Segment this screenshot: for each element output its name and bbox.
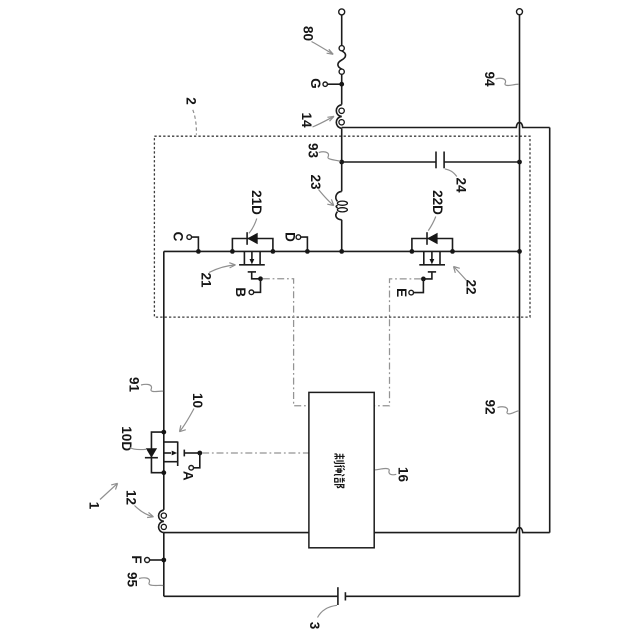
wire: battery 3 to wire 94 bottom corner — [345, 595, 519, 597]
kanji bu — [334, 478, 344, 488]
junction node 21 right — [271, 249, 276, 254]
junction node 21 left — [230, 249, 235, 254]
wire 94 vertical — [519, 15, 521, 597]
kanji gyo — [334, 465, 344, 476]
capacitor 24 — [436, 152, 444, 169]
diode 21D triangle — [247, 233, 258, 244]
junction node 10 bottom — [161, 470, 166, 475]
battery 3 — [338, 587, 346, 605]
terminal circle G — [323, 82, 327, 86]
svg-text:21: 21 — [199, 272, 214, 288]
transistor 22 (MOSFET) — [412, 232, 453, 281]
terminal B — [249, 279, 260, 295]
svg-text:21D: 21D — [249, 190, 264, 215]
wire: control unit to right boundary with hop over wire 94 — [374, 528, 550, 533]
terminal circle top left — [339, 9, 345, 15]
arrow leader from label 10 — [180, 409, 195, 432]
svg-text:22: 22 — [464, 279, 479, 294]
diode 10D cathode bar — [145, 457, 158, 459]
drain stub — [243, 251, 245, 264]
svg-text:24: 24 — [454, 177, 469, 193]
wire: inductor 12 to control unit (left segment) — [164, 532, 309, 534]
wire: capacitor 24 right plate to wire 94 — [444, 161, 519, 163]
control line from gate 21 to control unit — [263, 279, 309, 406]
wire: left bus from 12 down to corner — [163, 533, 165, 597]
main horizontal wire (node 91 bus) — [164, 250, 520, 252]
wire: top feed vertical into component 80 — [341, 15, 343, 46]
svg-text:3: 3 — [307, 622, 322, 630]
body arrow — [251, 251, 253, 259]
arrow leader from label 1 — [100, 483, 118, 499]
squiggle leader from label 93 — [319, 152, 341, 162]
arrow leader from label 12 — [135, 506, 154, 518]
squiggle leader from label 16 — [375, 468, 396, 474]
gate node — [421, 277, 426, 282]
svg-text:E: E — [394, 288, 409, 297]
drain stub — [423, 251, 425, 264]
channel bar — [239, 264, 265, 266]
svg-text:95: 95 — [125, 572, 140, 588]
gate lead — [252, 272, 261, 279]
svg-text:92: 92 — [483, 399, 498, 414]
body arrow — [164, 452, 171, 454]
svg-text:F: F — [129, 555, 144, 563]
junction node 93 — [339, 160, 344, 165]
svg-text:22D: 22D — [430, 190, 445, 215]
junction node C — [196, 249, 201, 254]
body diode 21D loop — [232, 239, 273, 252]
arrow leader from label 21 — [209, 263, 236, 273]
junction node D — [305, 249, 310, 254]
component 80 (interconnection reactor) — [338, 46, 346, 75]
terminal E — [409, 279, 423, 295]
transistor 10 (MOSFET) — [145, 432, 202, 473]
svg-text:93: 93 — [306, 143, 321, 159]
squiggle leader from label 95 — [139, 578, 163, 586]
transistor 21 (MOSFET) — [232, 232, 273, 281]
junction node F — [161, 558, 166, 563]
svg-text:C: C — [171, 232, 186, 242]
body arrow — [431, 251, 433, 259]
wire: 14 down to node 93 — [341, 128, 343, 162]
arrow leader from label 80 — [312, 42, 334, 55]
gate bar — [183, 450, 185, 457]
junction node 22 right — [450, 249, 455, 254]
body diode 22D loop — [412, 239, 453, 252]
drain stub — [164, 441, 178, 443]
arrow leader from label 14 — [313, 116, 335, 127]
body diode 10D loop — [151, 432, 163, 473]
svg-text:16: 16 — [396, 467, 411, 483]
leader from label 22D — [428, 217, 436, 231]
junction node 22 left — [410, 249, 415, 254]
gate bar — [248, 271, 256, 273]
gate node — [197, 451, 202, 456]
diode 21D cathode bar — [246, 232, 248, 245]
terminal G wire — [327, 83, 341, 85]
svg-text:B: B — [233, 287, 248, 297]
diode 22D cathode bar — [426, 232, 428, 245]
arrow leader from label 23 — [319, 190, 334, 206]
svg-text:A: A — [180, 471, 195, 481]
junction node 10 top — [161, 430, 166, 435]
control unit box 16 — [309, 392, 374, 547]
control unit kanji text (seigyobu) — [334, 454, 344, 488]
svg-text:G: G — [308, 78, 323, 89]
junction node at G — [339, 82, 344, 87]
diode 10D triangle — [146, 448, 157, 457]
svg-text:91: 91 — [127, 377, 142, 393]
junction at wire 94 and main bus — [517, 249, 522, 254]
control line from gate 22 to control unit — [374, 279, 421, 406]
svg-text:80: 80 — [301, 26, 316, 41]
svg-text:12: 12 — [124, 490, 139, 505]
channel bar — [419, 264, 445, 266]
gate lead — [184, 452, 200, 454]
inductor 14 — [336, 105, 344, 129]
gate node — [258, 276, 263, 281]
squiggle leader from label 92 — [498, 407, 520, 414]
leader from label 24 — [445, 169, 457, 177]
channel bar — [177, 442, 179, 467]
wire: node 93 to capacitor 24 left plate — [342, 161, 436, 163]
svg-text:2: 2 — [184, 97, 199, 105]
gate bar — [428, 271, 436, 273]
squiggle leader from label 94 — [496, 78, 519, 85]
source stub — [439, 251, 441, 264]
inductor 23 — [336, 162, 348, 251]
inductor 12 — [159, 510, 167, 532]
terminal D — [296, 235, 307, 252]
terminal circle top right — [517, 9, 523, 15]
wire: from 80 down to G node — [341, 74, 343, 104]
leader from label 10D — [130, 448, 147, 450]
terminal F — [145, 558, 164, 563]
wire: right outer boundary — [549, 128, 551, 533]
arrow leader from label 22 — [454, 267, 467, 281]
svg-text:14: 14 — [299, 112, 314, 128]
terminal C — [187, 235, 199, 252]
leader from label 2 — [193, 110, 197, 135]
kanji sei — [334, 454, 344, 464]
gate lead — [423, 272, 432, 279]
svg-text:23: 23 — [308, 174, 323, 190]
wire: bottom left segment to battery 3 — [164, 595, 338, 597]
svg-text:10: 10 — [190, 393, 205, 408]
squiggle leader from label 91 — [141, 384, 163, 391]
source stub — [164, 461, 178, 463]
diode 22D triangle — [427, 233, 438, 244]
terminal A — [189, 453, 200, 470]
leader from label 21D — [249, 219, 257, 234]
junction node on wire 94 — [517, 160, 522, 165]
junction node inductor 23 / bus — [339, 249, 344, 254]
svg-text:10D: 10D — [119, 426, 134, 451]
control line from gate 10 to control unit — [202, 452, 309, 454]
svg-text:1: 1 — [87, 502, 102, 510]
svg-text:D: D — [283, 232, 298, 242]
source stub — [259, 251, 261, 264]
wire: left bus down from main bus — [163, 251, 165, 510]
svg-text:94: 94 — [482, 71, 497, 87]
wire: top boundary from inductor 14 to right side with hop over wire 94 — [342, 122, 550, 127]
leader from label 3 — [318, 605, 338, 617]
dashed enclosure box 2 — [154, 136, 530, 317]
